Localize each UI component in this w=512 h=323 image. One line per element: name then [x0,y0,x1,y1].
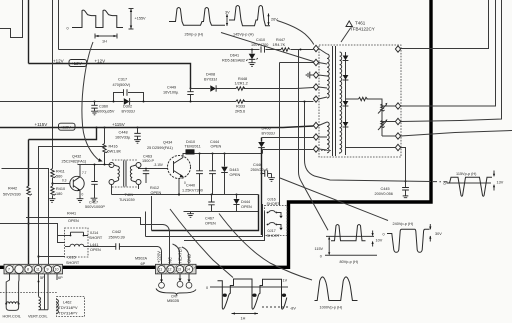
svg-text:D410: D410 [186,140,195,144]
wire right pin y=110.5 to top edge [401,0,502,122]
svg-text:D302: D302 [123,105,132,109]
flyback core [333,46,336,156]
svg-text:12: 12 [168,268,172,272]
svg-text:C440: C440 [186,184,195,188]
svg-text:0J15: 0J15 [68,256,76,260]
svg-text:SHORT: SHORT [66,261,80,265]
node H1 horizontal wire y=49.5 [59,49,314,51]
svg-text:OPEN: OPEN [205,221,216,225]
resistor R410 to ground [49,184,65,203]
svg-text:25 D2599(FA1): 25 D2599(FA1) [147,146,173,150]
wire y=88 with D408 and R448 to flyback pin4 [191,88,314,89]
flyback left pin diamonds [313,45,318,152]
resistor R447 (series on H1) [273,38,290,51]
svg-text:T461: T461 [355,21,366,26]
wire y=223.5 from left edge to x=57 [0,224,65,243]
svg-text:115Vp-p (H): 115Vp-p (H) [456,172,477,176]
svg-text:160V33µ: 160V33µ [115,136,131,140]
svg-text:30V: 30V [435,232,442,236]
svg-text:D408: D408 [206,73,215,77]
svg-text:SHORT: SHORT [89,236,103,240]
svg-text:7: 7 [8,268,10,272]
leader line to 240V waveform [280,178,388,221]
resistor R333 (series on rail) [235,100,245,114]
svg-text:RD5.6ESAB2: RD5.6ESAB2 [222,59,245,63]
vertical branch x=28 with R442 [28,140,30,269]
capacitor C360 electrolytic to ground [91,101,115,115]
svg-text:D406: D406 [262,127,271,131]
diode D408 [204,73,217,92]
vertical deflection coil [28,274,48,319]
wire y=256 stub [39,256,66,258]
svg-text:C360: C360 [99,105,108,109]
svg-text:200V0.056: 200V0.056 [375,192,393,196]
wires to CRT socket pins 13,14 [173,244,189,265]
junction node on H1 at x=300 [300,49,302,51]
capacitor C446 to ground [251,163,275,181]
HV rectifier diode chain [343,52,349,155]
svg-text:L462: L462 [63,301,71,305]
jumper dashed box 0J14 / L441 [58,228,103,265]
svg-text:R447: R447 [276,38,285,42]
focus divider tap wire with resistor [346,97,383,136]
svg-text:2R5.6: 2R5.6 [235,110,245,114]
collector bus y=153 [183,154,263,156]
snubber box edge B [146,204,263,237]
capacitor C449 electrolytic [163,86,194,103]
wire y=168 from left edge and branch x=48 [2,169,49,269]
wires from connector down to coils [6,273,57,303]
transistor Q434 (H.OUT) [147,141,191,195]
svg-text:TDY314PY: TDY314PY [59,312,78,316]
svg-text:+115V: +115V [60,126,71,130]
svg-text:Q434: Q434 [163,141,172,145]
svg-text:1H: 1H [241,317,246,321]
svg-text:TDY314PV: TDY314PV [59,306,78,310]
svg-text:+12V: +12V [95,59,106,64]
diode D443 OPEN [221,153,240,195]
leader from 26V waveform to pin2 [221,33,314,62]
svg-text:SHORT: SHORT [267,202,281,206]
snubber box edge C [184,212,265,241]
capacitor C417 to ground [85,164,105,210]
svg-text:HEATER: HEATER [178,247,183,263]
label C467 OPEN [205,217,216,226]
svg-text:R441: R441 [67,212,76,216]
focus pot 2 [378,119,387,130]
svg-text:6P: 6P [141,262,146,266]
ground at flyback pin3 [306,72,313,79]
svg-text:C467: C467 [205,217,214,221]
svg-text:0: 0 [383,233,385,237]
svg-text:145Vp-p (H): 145Vp-p (H) [233,33,254,37]
leader from top-left waveform to driver node [82,42,103,162]
driver transformer T401 [109,160,141,202]
svg-text:R442: R442 [8,187,17,191]
linearity coil L462 dashed box [57,297,85,317]
svg-text:TEM2011: TEM2011 [185,145,201,149]
resistor R442 [3,186,32,197]
svg-text:50V2V330: 50V2V330 [3,193,21,197]
diode D444 OPEN [233,194,252,212]
capacitor C463 [142,155,164,184]
svg-text:+155V: +155V [135,17,147,21]
wire right pin y=97 to top edge [401,0,496,106]
svg-text:6P: 6P [58,276,63,280]
dash-dot continuation to CRT [433,181,447,183]
svg-text:26V: 26V [271,18,278,22]
svg-text:HOR.COIL: HOR.COIL [3,315,21,319]
flyback right pin diamonds [395,46,400,151]
svg-text:1R4.7K: 1R4.7K [273,43,286,47]
main rail y=101 [0,101,313,103]
capacitor C317 bypass loop [113,78,145,103]
horizontal deflection coil [3,302,21,319]
resistor R412 OPEN [139,185,162,195]
svg-text:C463: C463 [143,155,152,159]
lower snubber rail y=211 [184,211,259,213]
svg-text:D443: D443 [230,168,239,172]
svg-text:0: 0 [67,27,69,31]
capacitor C445 [375,180,409,197]
junction node on H1 at D641 [251,49,253,51]
wire R441 OPEN row [26,212,170,266]
capacitor C410 (series on H1) [251,38,268,53]
leader from 145V waveform to pin1 [277,21,314,45]
waveform W8 1000Vp-p [315,277,358,310]
rotated pin labels M502A [157,247,192,263]
svg-text:NC: NC [168,257,173,263]
svg-text:+115V: +115V [112,122,125,127]
svg-text:1H: 1H [102,40,107,44]
+12V rail [29,64,191,89]
svg-text:+115V: +115V [35,122,48,127]
wire: waveform box left edge [58,0,60,50]
svg-text:D641: D641 [230,54,239,58]
leader to drive waveform W7 [170,209,233,278]
wire: +12V feed vertical [28,0,30,64]
boxed label +12V [69,60,87,67]
dashed stub inside box at pin8 [321,150,331,152]
svg-text:180: 180 [56,192,62,196]
vertical wire x=279.5 from flyback pin2 [280,63,314,206]
svg-text:13V: 13V [497,181,504,185]
svg-text:0: 0 [82,193,84,197]
capacitor C448 to ground [115,127,141,144]
svg-text:C317: C317 [118,78,127,82]
svg-text:C448: C448 [119,131,128,135]
leader to 1000V waveform W8 [219,214,312,281]
svg-text:OPEN: OPEN [241,205,252,209]
deflection return line y=182 to right [305,102,432,182]
CRT socket pins below M502A [156,274,196,303]
flyback primary winding upper [319,49,330,100]
wire from +115V rail down-left to R442 branch [29,128,97,140]
svg-text:R411: R411 [56,170,65,174]
svg-text:C449: C449 [167,86,176,90]
svg-text:M502A: M502A [135,257,147,261]
svg-text:C410: C410 [256,38,265,42]
waveform W3 145Vp-p [229,6,278,37]
+115V rail [0,126,313,128]
resistor R411 (series on x=52 bus) [51,169,67,184]
wire right pin y=148.5 to C445 [401,131,512,188]
svg-text:R410: R410 [56,187,65,191]
svg-text:R412: R412 [150,186,159,190]
T401 secondary bottom wire to emitter return [111,185,113,195]
waveform W2 26Vp-p [169,8,230,37]
waveform W6 80Vp-p [315,224,383,264]
svg-text:OPEN: OPEN [211,145,222,149]
wire flyback pin7 to D406 [262,137,314,139]
CRT board connector M502A [135,257,196,274]
svg-text:-8V: -8V [290,307,296,311]
svg-text:10: 10 [55,268,59,272]
svg-text:1.25KV7200: 1.25KV7200 [182,189,203,193]
svg-text:7.7: 7.7 [82,171,87,175]
resistor R448 [235,77,248,90]
svg-text:1000Vp-p (H): 1000Vp-p (H) [320,306,344,310]
svg-text:+12V: +12V [53,59,64,64]
chassis dashed line bottom-left [0,292,57,294]
Q432 collector node wire y=164 [78,164,112,166]
boxed label +115V [59,123,76,130]
svg-text:OPEN: OPEN [90,248,101,252]
svg-text:0J14: 0J14 [90,231,98,235]
waveform W5 240Vp-p [383,222,443,253]
svg-text:+12V: +12V [71,61,82,66]
wire flyback pin8 to snubber bus [263,150,314,154]
svg-text:1V: 1V [283,279,288,283]
svg-text:TLN1039: TLN1039 [119,198,135,202]
svg-text:C442: C442 [112,230,121,234]
svg-text:0: 0 [444,182,446,186]
svg-text:0.3: 0.3 [62,179,67,183]
svg-text:R416: R416 [109,145,118,149]
svg-text:OPEN: OPEN [68,219,79,223]
transistor Q432 [53,155,87,203]
svg-text:-3.15V: -3.15V [154,163,164,167]
svg-text:0: 0 [206,286,208,290]
svg-text:0J16: 0J16 [268,198,276,202]
svg-text:16V100µ: 16V100µ [163,91,179,95]
svg-text:500V1000P: 500V1000P [85,205,105,209]
junction on x=28 at y=223.5 [27,222,29,224]
capacitor C440 [182,153,203,195]
svg-text:13: 13 [177,268,181,272]
diode D406 vertical bold branch [258,127,275,236]
svg-text:25C2482(FA1): 25C2482(FA1) [62,160,87,164]
waveform W1 flyback pulse (top-left) [67,9,147,44]
capacitor (snubber) x=212 [209,153,216,195]
svg-text:BY033J: BY033J [262,131,275,135]
svg-text:10V: 10V [376,239,383,243]
flyback dashed enclosure [319,45,401,157]
svg-text:OPEN: OPEN [230,173,241,177]
svg-text:M502B: M502B [167,299,179,303]
flyback T461 label [341,21,375,43]
secondary bottom wire to right pin [346,147,396,149]
svg-text:9: 9 [47,268,49,272]
waveform W4 115Vp-p (right) [444,171,504,197]
deflection connector 5P/6P [4,264,63,280]
base drive wire to Q434 with C463 [139,168,168,169]
svg-text:1/2R1.2: 1/2R1.2 [235,82,248,86]
svg-text:BY033J: BY033J [204,78,217,82]
svg-text:8: 8 [27,268,29,272]
ground under lower rail [187,212,194,218]
svg-text:5W1.8K: 5W1.8K [108,150,122,154]
svg-text:C445: C445 [381,187,390,191]
node Q432 base [51,182,53,184]
svg-text:1000µ35V: 1000µ35V [97,110,115,114]
svg-text:0: 0 [320,255,322,259]
svg-text:11: 11 [159,268,163,272]
svg-text:250V22µF: 250V22µF [251,168,269,172]
junction x=38 y=256 [37,255,39,257]
svg-text:BY033J: BY033J [122,110,135,114]
svg-text:R448: R448 [238,77,247,81]
resistor R416 from +115V rail [103,127,122,165]
svg-text:250V0.39: 250V0.39 [109,236,125,240]
node at +115V rail x=96 [96,127,98,129]
svg-text:C446: C446 [253,163,262,167]
svg-text:0J17: 0J17 [268,229,276,233]
svg-text:3V: 3V [225,11,230,15]
svg-text:VERT.COIL: VERT.COIL [28,315,48,319]
flyback HV secondary winding [340,52,342,154]
flyback primary winding lower [319,122,330,153]
svg-text:C417: C417 [89,201,98,205]
svg-text:SHORT: SHORT [267,234,281,238]
svg-text:11: 11 [36,268,40,272]
capacitor C442 series [88,230,162,265]
capacitor between rails x=211 [208,194,214,212]
svg-text:Q432: Q432 [72,155,81,159]
diode D302 (series on rail) [122,98,135,113]
svg-text:D444: D444 [241,200,250,204]
zener D641 with ground [222,50,258,67]
waveform W7 base drive [206,279,296,321]
snubber box edge A [152,195,259,231]
svg-text:GND: GND [187,254,192,263]
pot output stubs to right pins [382,106,395,136]
svg-text:80Vp-p (H): 80Vp-p (H) [340,260,359,264]
svg-text:+220V: +220V [157,251,162,263]
wire: long vertical bus x=52 [52,0,54,169]
emitter return line y=194.5 [112,194,259,196]
svg-text:470(500V): 470(500V) [113,83,131,87]
svg-text:TFB4122CY: TFB4122CY [350,27,375,32]
svg-text:C444: C444 [210,140,219,144]
svg-text:14: 14 [186,268,190,272]
fuse D410 TEM2011 [185,140,201,155]
highlighted section border (thick) [0,0,431,267]
focus pot 1 [378,103,387,114]
svg-text:115V: 115V [315,247,324,251]
snubber box left stubs [146,196,152,237]
jumper dashed box 0J16/0J17 [265,198,288,238]
wire: top-left step to left edge [0,0,23,38]
svg-text:R333: R333 [236,105,245,109]
svg-text:26Vp-p (H): 26Vp-p (H) [185,33,204,37]
label C444 OPEN [210,140,222,149]
svg-text:240Vp-p (H): 240Vp-p (H) [393,222,414,226]
vertical wire x=298 from H1 with leader to 80V waveform [299,50,329,231]
wire pin top-right to top edge [401,0,489,49]
wire y=146.5 and branch x=38 [39,147,105,269]
